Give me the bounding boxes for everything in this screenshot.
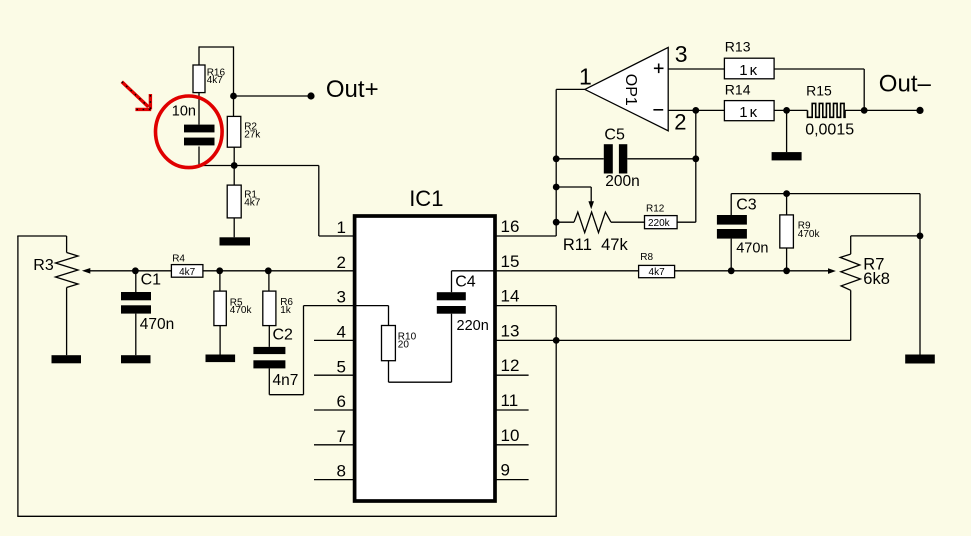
wire C5 right [627,158,696,160]
wire into IC pin 3 [304,305,355,307]
svg-text:8: 8 [337,462,346,481]
wire C3 bottom [730,239,732,271]
svg-text:4k7: 4k7 [179,267,196,278]
svg-text:2: 2 [674,109,686,134]
wire R10 bottom [388,361,390,383]
pin 6 stub wire [314,409,354,411]
wire R9 top [786,194,788,215]
resistor R16 [193,65,205,93]
svg-text:470k: 470k [798,229,821,240]
wire R14 to R15 [774,109,807,111]
svg-text:5: 5 [337,357,346,376]
svg-text:11: 11 [501,391,519,410]
wire R3 top stub [66,236,68,253]
wire interior down to R10 [388,306,390,326]
node pin2 branch [692,107,699,114]
wire up to C4 [451,314,453,383]
wire wiper down [590,187,592,202]
svg-text:220n: 220n [457,318,489,334]
pin 15 stub wire [495,374,528,376]
pin 8 stub wire [314,479,354,481]
ground below right bus [905,355,935,364]
resistor R2 [227,116,241,147]
wire R5 top [219,271,221,291]
red highlight circle [156,96,223,168]
wire node to IC pin1 horizontal [234,165,319,167]
node R5 top [216,267,223,274]
svg-text:15: 15 [501,252,520,271]
wire op-amp pin2 to R14 [668,109,724,111]
wire R11 to R12 [611,221,645,223]
arrowhead pointing left at R3 [82,268,90,274]
wire R2 to R1 [233,147,235,185]
svg-text:1ᴋ: 1ᴋ [739,62,759,79]
potentiometer R7 zigzag [840,254,860,290]
svg-text:20: 20 [398,339,410,350]
wire interior bottom horizontal [389,381,452,383]
potentiometer R3 [56,253,79,288]
svg-text:4n7: 4n7 [273,372,299,389]
wire loop right side vertical [233,46,235,116]
svg-text:1ᴋ: 1ᴋ [739,104,759,121]
pin 14 stub wire [495,409,528,411]
capacitor 10n (circled) [184,125,215,133]
wire C3 top [730,194,732,215]
svg-text:1k: 1k [280,305,292,316]
svg-text:4k7: 4k7 [244,198,261,209]
resistor R9 [780,215,794,248]
wire top line C3 to right bus [731,193,920,195]
black dashed overlay on arrow [122,82,149,107]
svg-text:6: 6 [337,392,346,411]
pin 12 stub wire [495,479,528,481]
op-amp minus input mark [653,109,663,111]
wire C2 bottom down [268,368,270,394]
svg-text:9: 9 [501,461,510,480]
svg-text:4k7: 4k7 [649,267,666,278]
svg-text:C2: C2 [273,327,294,344]
wire C4 top [451,271,453,292]
pin 7 stub wire [314,444,354,446]
wire IC pin15 to R8 [495,270,638,272]
svg-text:7: 7 [337,427,346,446]
wire bottom bus rise to pin13 node [555,340,557,516]
wire op-amp pin3 output to R13 [668,68,724,70]
wire feedback bus vertical [555,89,557,236]
svg-text:R12: R12 [646,204,665,215]
wire R5 to ground [219,326,221,355]
wire C2 bottom right [269,394,303,396]
pin 13 stub wire [495,444,528,446]
svg-text:R4: R4 [172,253,185,264]
wire R7 top to bus [851,235,920,237]
wire R8 to R7 wiper [675,270,829,272]
wire bus to C5 [556,158,604,160]
wire wiper arrow to R3 [90,270,136,272]
op-amp U2 OP1 [585,47,668,130]
node C1 top junction [132,267,139,274]
svg-text:OP1: OP1 [622,74,639,106]
svg-text:13: 13 [501,321,520,340]
node C5 right junction [692,155,699,162]
svg-text:R11 47k: R11 47k [563,236,629,254]
wire IC pin14 stub [495,305,556,307]
wire capacitor to node below R2 [199,165,234,167]
svg-text:R14: R14 [725,82,751,98]
svg-text:10: 10 [501,426,520,445]
svg-text:1: 1 [337,218,346,237]
wire R3 bottom to ground [66,288,68,356]
svg-text:2: 2 [337,253,346,272]
wire R4 to IC pin 2 [203,270,354,272]
ground below R1 [220,237,251,245]
ground below R14-R15 node [772,152,802,160]
node wiper branch [553,184,560,191]
node R9 bottom [783,267,790,274]
node Out+ terminal [307,92,314,99]
wire to Out+ terminal [234,95,312,97]
resistor R10 [382,326,396,361]
wire R6 top [268,271,270,291]
svg-text:C3: C3 [736,197,757,214]
wire C1 to ground [135,314,137,356]
svg-text:3: 3 [337,288,346,307]
svg-text:16: 16 [501,217,520,236]
red arrow barb horizontal [135,108,151,111]
wire inverting input branch vertical [695,110,697,222]
potentiometer R11 zigzag [574,212,611,233]
wire C1 node to R4 [135,270,171,272]
wire capacitor bottom down [198,147,200,167]
resistor R12 [645,216,678,229]
arrowhead pointing right at R7 [828,268,836,274]
capacitor C1 [121,292,151,300]
svg-text:470n: 470n [140,316,174,333]
pin 5 stub wire [314,374,354,376]
wire IC pin13 to R7 bottom [495,339,850,341]
svg-text:3: 3 [675,41,688,67]
node Out+ branch junction [230,93,237,100]
ground below R3 [52,355,82,363]
wire op-amp output to bus [556,88,585,90]
wire up to pin3 row [303,306,305,395]
wire R6 to C2 [268,326,270,347]
wire IC pin16 to feedback bus [495,235,556,237]
wire right bus vertical [919,194,921,355]
svg-text:14: 14 [501,287,520,306]
svg-text:6k8: 6k8 [863,270,890,288]
wire R9 bottom [786,248,788,271]
wire R7 top stub [850,236,852,254]
svg-text:R3: R3 [33,257,54,274]
wire R11 wiper horizontal [556,186,591,188]
op-amp plus input mark [654,67,664,69]
capacitor C3 [717,215,747,225]
svg-text:27k: 27k [244,129,261,140]
red arrow barb vertical [149,94,152,109]
resistor R5 [214,291,226,326]
node C3 bottom [728,267,735,274]
svg-text:0,0015: 0,0015 [805,121,854,138]
wire pin3 interior [356,305,389,307]
svg-text:470k: 470k [230,305,253,316]
resistor R15 meander [808,103,846,117]
svg-text:Out–: Out– [879,70,932,97]
wire bottom bus horizontal [17,515,557,517]
capacitor C2 [253,347,285,354]
wire R16 bottom to capacitor [198,93,200,125]
node below R2 [231,162,238,169]
resistor R6 [263,291,276,326]
svg-text:R13: R13 [725,39,751,55]
node R6 top [265,267,272,274]
svg-text:470n: 470n [736,241,768,257]
resistor R4 [171,265,203,278]
svg-text:C4: C4 [455,273,476,290]
svg-text:1: 1 [579,64,592,90]
wire R7 bottom to pin13 row [850,290,852,340]
node R13 join [861,107,868,114]
node Out- terminal [916,107,923,114]
node C5 left [553,155,560,162]
wire R13 corner down to output line [863,69,865,110]
svg-text:C1: C1 [141,271,162,288]
resistor R13 [724,58,774,79]
svg-text:R8: R8 [640,252,653,263]
resistor R8 [639,265,675,277]
wire left bus vertical [17,236,19,516]
svg-text:4: 4 [337,323,346,342]
svg-text:R15: R15 [806,82,832,98]
svg-text:12: 12 [501,356,520,375]
svg-text:220k: 220k [648,218,671,229]
wire top loop horizontal [199,46,234,48]
node R14-R15 ground branch [783,107,790,114]
pin 4 stub wire [314,339,354,341]
wire down to ground [786,110,788,152]
ground below C1 [121,355,151,363]
node R7 top junction [917,233,924,240]
node pin13 junction [553,337,560,344]
wire R16 top stub [198,46,200,65]
node R11 left [553,219,560,226]
wire R13 to corner [774,68,864,70]
wire into IC pin 1 [319,235,354,237]
svg-text:200n: 200n [605,173,639,190]
svg-text:IC1: IC1 [409,186,443,211]
red arrow shaft [122,82,149,107]
capacitor C4 [437,292,466,300]
IC U1 body IC1 [355,216,495,501]
wire C4 to pin15 row interior [452,270,495,272]
svg-text:10n: 10n [172,104,196,120]
wire bus to R11 [556,221,574,223]
wire pin14 down to pin13 [555,306,557,341]
svg-text:C5: C5 [604,127,625,144]
wire top bus to R3 [17,235,66,237]
wire R12 right to corner [677,221,696,223]
wire down to pin1 row [318,166,320,237]
arrowhead wiper onto R11 [588,201,594,209]
svg-text:4k7: 4k7 [207,75,224,86]
svg-text:Out+: Out+ [326,76,379,103]
wire R15 to Out- terminal [845,109,920,111]
resistor R14 [724,101,774,121]
wire C1 top [135,271,137,292]
resistor R1 [227,185,241,218]
capacitor C5 [604,144,613,173]
node R9 top [783,190,790,197]
wire R1 to ground [233,218,235,237]
ground below R5 [206,355,236,363]
